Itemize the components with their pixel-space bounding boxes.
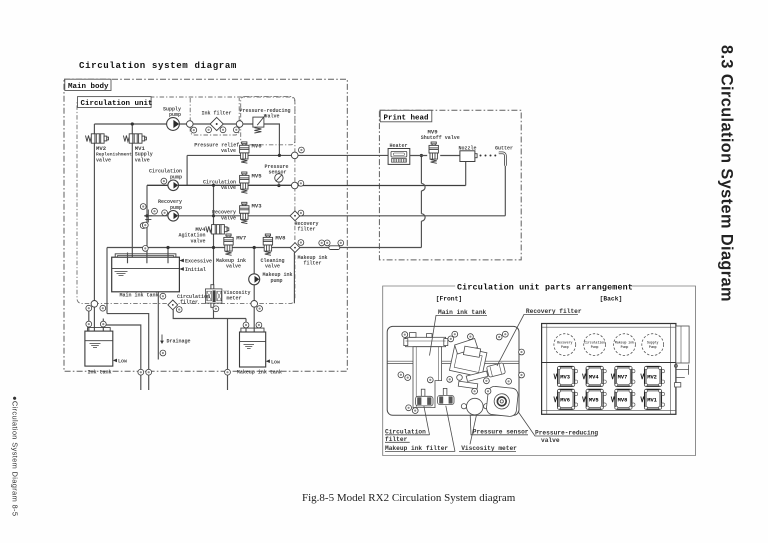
gutter: [499, 153, 506, 166]
svg-text:valve: valve: [226, 264, 241, 270]
svg-text:sensor: sensor: [268, 169, 286, 175]
heater: [388, 149, 410, 165]
svg-text:MV7: MV7: [236, 234, 246, 241]
front unit chassis: [387, 326, 519, 415]
wire supply-circulation riser: [186, 155, 188, 185]
svg-text:MV4: MV4: [589, 374, 599, 380]
pressure sensor: [275, 174, 283, 182]
node sensor stem: [277, 184, 280, 187]
wire heater to MV9: [410, 155, 427, 157]
wire left drop elbow: [107, 314, 149, 390]
front: pressure sensor part: [467, 398, 484, 415]
node agitation-recovery cross: [212, 214, 215, 217]
valve MV6 (pressure relief): [240, 142, 249, 163]
svg-text:Gutter: Gutter: [495, 146, 513, 152]
back: solenoid block MV1: [641, 389, 665, 409]
svg-text:valve: valve: [96, 157, 111, 163]
back: side plate: [676, 326, 689, 363]
numbered pipe tags top row: [191, 127, 197, 133]
svg-text:MV5: MV5: [589, 397, 599, 403]
makeup ink filter: [290, 243, 300, 253]
wire bottom loop to makeup tank pipe: [214, 318, 247, 320]
svg-text:Nozzle: Nozzle: [458, 146, 476, 152]
pressure-reducing valve sub-box: [241, 97, 295, 145]
valve MV1 (supply): [123, 134, 146, 143]
svg-text:Ink filter: Ink filter: [201, 111, 231, 117]
svg-text:Fig.8-5 Model RX2 Circulation: Fig.8-5 Model RX2 Circulation System dia…: [302, 492, 516, 504]
svg-text:[Front]: [Front]: [436, 295, 462, 302]
main ink tank: [112, 257, 180, 292]
wire makeup pump column into tank: [253, 307, 255, 362]
svg-text:valve: valve: [221, 185, 236, 191]
viscosity meter: [211, 285, 214, 289]
boundary ports on main body bottom edge: [138, 369, 144, 375]
svg-text:Circulation system diagram: Circulation system diagram: [79, 60, 237, 71]
svg-text:Recovery filter: Recovery filter: [526, 308, 582, 315]
svg-text:filter: filter: [180, 300, 198, 306]
front: circulation filter part: [421, 389, 425, 397]
svg-text:Excessive: Excessive: [185, 259, 212, 265]
parts arrangement outer box: [383, 286, 696, 456]
recovery filter: [290, 211, 300, 221]
node bottom agitation tee: [212, 246, 215, 249]
front: recovery filter part: [486, 363, 505, 378]
svg-text:filter: filter: [304, 260, 322, 266]
svg-text:Makeup ink tank: Makeup ink tank: [237, 370, 282, 376]
pump: recovery pump: [168, 211, 179, 222]
svg-text:Initial: Initial: [185, 267, 206, 273]
port: makeup pump line to tank: [251, 301, 258, 308]
back: pump circles: [554, 334, 576, 356]
wire makeup pump column upper: [253, 248, 255, 274]
front: screw position tags: [402, 332, 408, 338]
valve MV3 (recovery): [240, 202, 249, 223]
valve MV2 (replenishment): [86, 134, 109, 143]
svg-text:MV2: MV2: [647, 374, 657, 380]
svg-text:[Back]: [Back]: [600, 296, 623, 303]
pump: supply pump: [167, 118, 180, 131]
wire recovery line to gutter return: [300, 215, 506, 217]
excessive level tap: [179, 259, 184, 263]
wire ink tank right pipe: [102, 319, 104, 332]
valve MV7 (makeup ink): [224, 234, 233, 255]
wire MV9 to nozzle: [440, 155, 460, 157]
wire supply top line: [94, 123, 253, 125]
wire makeup line right segment: [300, 247, 422, 249]
main body boundary box: [64, 79, 347, 371]
pump: makeup ink pump: [249, 274, 260, 285]
wire makeup tank feed drop: [227, 319, 229, 391]
svg-text:Main body: Main body: [68, 83, 109, 91]
tank level mark: [115, 272, 128, 276]
svg-text:MV2: MV2: [96, 145, 107, 152]
wire agitation to bottom line: [213, 234, 215, 248]
front: pressure-reducing valve part: [486, 386, 519, 417]
svg-text:MV8: MV8: [275, 234, 286, 241]
wire makeup filter drop: [293, 252, 295, 303]
wire makeup pump column mid: [253, 285, 255, 301]
valve MV8 (cleaning): [263, 234, 272, 255]
svg-text:MV1: MV1: [647, 397, 657, 403]
node MV9 drain tee: [420, 154, 423, 157]
drain coupling fittings: [144, 210, 152, 223]
node riser-recovery cross: [145, 214, 148, 217]
wire recovery line: [144, 215, 290, 217]
svg-text:Low: Low: [118, 359, 127, 365]
front: main ink tank lid: [406, 337, 446, 346]
wire drainage line: [157, 291, 159, 360]
svg-text:MV6: MV6: [560, 397, 570, 403]
svg-text:MV3: MV3: [252, 203, 263, 210]
node reducing-valve corner: [278, 154, 281, 157]
ink filter sub-box: [190, 98, 239, 135]
svg-text:Heater: Heater: [389, 143, 407, 149]
svg-text:MV3: MV3: [560, 374, 570, 380]
port: MV2 line to ink tank: [91, 301, 98, 308]
svg-text:8.3 Circulation System Diagram: 8.3 Circulation System Diagram: [718, 45, 736, 302]
back: solenoid block MV8: [611, 389, 635, 409]
svg-text:valve: valve: [221, 148, 236, 154]
svg-text:Makeup ink filter: Makeup ink filter: [385, 445, 448, 452]
initial level tap: [179, 267, 184, 271]
valve MV4 (agitation): [206, 225, 229, 234]
svg-text:valve: valve: [135, 157, 150, 163]
back: side fittings: [674, 364, 677, 367]
svg-text:Ink tank: Ink tank: [88, 370, 112, 376]
node MV1 branch: [131, 122, 134, 125]
wire MV2 column into ink tank: [93, 307, 95, 363]
circulation unit label: [78, 97, 152, 108]
wire nozzle return riser: [465, 162, 467, 186]
svg-text:pump: pump: [170, 174, 182, 180]
svg-text:pump: pump: [170, 205, 182, 211]
svg-text:MV6: MV6: [252, 142, 263, 149]
svg-text:filter: filter: [385, 436, 408, 443]
svg-text:Circulation unit parts arrange: Circulation unit parts arrangement: [457, 283, 633, 293]
wire viscosity riser upper: [213, 248, 215, 289]
makeup ink tank: [240, 332, 266, 367]
svg-text:pump: pump: [271, 278, 283, 284]
inline damper capsule: [329, 246, 340, 250]
main body label: [65, 79, 111, 90]
front: makeup ink filter part: [443, 388, 447, 396]
junction port after supply pump: [187, 121, 194, 128]
svg-text:MV7: MV7: [618, 374, 628, 380]
svg-text:Print head: Print head: [384, 115, 429, 123]
circulation filter: [168, 300, 178, 310]
svg-text:MV5: MV5: [252, 172, 263, 179]
wire ink tank left pipe: [88, 306, 90, 332]
ink tank: [85, 331, 113, 366]
svg-text:Pump: Pump: [649, 345, 657, 349]
front: main ink tank body: [413, 347, 442, 408]
port where supply line exits unit: [291, 152, 298, 159]
svg-text:Pump: Pump: [561, 345, 569, 349]
pipe tags on shared riser: [142, 222, 148, 228]
wire left drop x107: [106, 248, 108, 314]
wire circulation line to nozzle return: [298, 185, 466, 187]
pump: circulation pump: [168, 180, 179, 191]
node main tank drop tee: [166, 246, 169, 249]
wire MV9 drain riser with jump marks: [420, 156, 422, 184]
back: solenoid block MV5: [583, 389, 607, 409]
wire shared left riser into main tank: [146, 185, 148, 263]
svg-text:Main ink tank: Main ink tank: [120, 293, 159, 299]
wire bottom return loop: [173, 310, 213, 319]
svg-text:Shutoff valve: Shutoff valve: [421, 135, 460, 141]
valve MV9 (shutoff): [429, 142, 438, 163]
svg-text:pump: pump: [169, 112, 181, 118]
svg-text:valve: valve: [264, 113, 279, 119]
back: solenoid block MV2: [641, 367, 665, 387]
svg-text:filter: filter: [298, 226, 316, 232]
back: solenoid block MV4: [583, 367, 607, 387]
svg-text:meter: meter: [227, 295, 242, 301]
wire bottom makeup line: [107, 247, 290, 249]
back: solenoid block MV3: [554, 367, 578, 387]
svg-text:●Circulation System Diagram 8: ●Circulation System Diagram 8-5: [10, 396, 19, 516]
ink filter F1: [210, 117, 223, 130]
svg-text:Viscosity meter: Viscosity meter: [461, 445, 517, 452]
node agitation tee: [212, 184, 215, 187]
svg-text:Main ink tank: Main ink tank: [438, 309, 487, 316]
svg-text:valve: valve: [265, 264, 280, 270]
wire gutter return riser: [504, 166, 506, 216]
print head label: [380, 110, 432, 122]
tank inlet pipes: [128, 253, 169, 264]
wire circulation line: [147, 184, 292, 186]
wire bottom line drop into main tank: [167, 248, 169, 264]
ink drop dotted stream: [480, 155, 482, 157]
wire main supply line to heater: [298, 154, 388, 156]
svg-text:valve: valve: [221, 215, 236, 221]
print head boundary box: [379, 110, 521, 260]
back: solenoid block MV7: [611, 367, 635, 387]
svg-text:Low: Low: [271, 359, 280, 365]
svg-text:valve: valve: [190, 238, 205, 244]
front: pump bracket assembly: [449, 346, 486, 377]
wire reducing valve to corner: [264, 124, 280, 155]
svg-text:Drainage: Drainage: [167, 338, 191, 344]
back unit chassis: [542, 324, 676, 415]
pressure-reducing valve: [253, 117, 264, 127]
wire agitation riser: [213, 185, 215, 224]
wire ink tank pipe to feed drop: [103, 325, 141, 390]
wire main supply line to port: [187, 154, 291, 156]
back: solenoid block MV6: [554, 389, 578, 409]
svg-text:Pressure-reducing: Pressure-reducing: [535, 430, 598, 437]
circulation unit boundary box: [77, 97, 295, 304]
svg-text:Circulation: Circulation: [385, 428, 426, 435]
wire viscosity riser lower: [213, 307, 215, 318]
svg-text:valve: valve: [541, 437, 560, 444]
drainage arrow and label: [160, 293, 166, 299]
node makeup pump tee: [253, 246, 256, 249]
svg-text:Pump: Pump: [621, 345, 629, 349]
valve MV5 (circulation): [240, 172, 249, 193]
wire MV1 column: [131, 124, 133, 288]
junction port before reducing valve: [236, 121, 243, 128]
svg-text:Pump: Pump: [591, 345, 599, 349]
wire MV2 column: [93, 124, 95, 301]
port where circulation line exits unit: [291, 182, 298, 189]
wire makeup tank left pipe: [245, 319, 247, 332]
svg-text:Circulation unit: Circulation unit: [81, 100, 153, 108]
nozzle: [460, 151, 475, 162]
svg-text:MV8: MV8: [618, 397, 628, 403]
svg-text:Pressure sensor: Pressure sensor: [473, 428, 529, 435]
